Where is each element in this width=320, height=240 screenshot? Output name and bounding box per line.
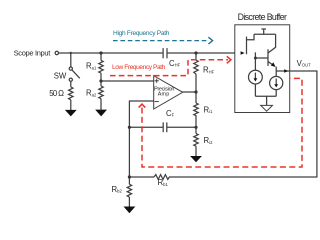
wire Q2 emitter to output node	[275, 67, 277, 71]
wire CF left	[129, 126, 163, 128]
junction Ri1/Ri2/CF	[194, 126, 197, 129]
resistor Rb1	[154, 175, 169, 180]
low frequency path dashed line input to buffer	[110, 60, 228, 76]
wire switch branch	[70, 54, 72, 68]
svg-text:Low Frequency Path: Low Frequency Path	[112, 64, 166, 71]
current source I1 arrowhead	[254, 78, 258, 81]
current source I1	[249, 70, 263, 84]
capacitor CF plates	[162, 122, 164, 132]
wire buffer ground bus	[255, 95, 276, 97]
current source I1 arrow shaft	[254, 73, 256, 79]
svg-text:Scope Input: Scope Input	[14, 49, 52, 58]
wire Q2 base lead	[255, 57, 268, 59]
resistor Ra1	[99, 60, 103, 73]
ground under Ra2	[95, 110, 107, 117]
buffer ground symbol (open)	[261, 105, 273, 111]
wire CF right	[167, 126, 196, 128]
switch SW blade	[72, 70, 80, 78]
transistor Q1 gate bar	[246, 37, 248, 55]
output signal arrowhead to Vout	[284, 69, 288, 73]
ground under Rb2	[124, 207, 136, 214]
transistor Q2 emitter	[268, 62, 275, 67]
junction input/switch	[70, 52, 72, 54]
high frequency path dashed arrow	[113, 40, 208, 42]
switch SW top contact	[69, 67, 72, 70]
svg-text:High Frequency Path: High Frequency Path	[113, 30, 170, 37]
switch SW bottom contact	[69, 78, 72, 81]
wire I2 to ground bus	[275, 90, 277, 97]
wire Rb2 to ground	[128, 197, 130, 207]
supply stub in buffer	[261, 28, 266, 30]
op-amp U1 Precision Amp	[154, 76, 183, 109]
wire Ra branch upper	[100, 54, 102, 61]
junction Ra1/Ra2 tap	[99, 79, 102, 82]
wire Ra1 to tap node	[100, 73, 102, 81]
wire buffer output to box edge	[276, 70, 290, 72]
resistor RHF	[194, 60, 198, 74]
input signal arrowhead into Q1	[241, 51, 245, 55]
junction Q1 source / Q2 base	[254, 57, 257, 60]
svg-text:SW: SW	[54, 71, 67, 80]
wire Ri1 top	[195, 92, 197, 103]
wire RHF top	[195, 54, 197, 61]
wire switch to 50 ohm resistor	[70, 81, 72, 87]
op-amp + input symbol	[155, 80, 159, 82]
wire Q1 source lead	[254, 53, 257, 58]
current source I2 arrowhead	[274, 84, 278, 87]
low frequency path arrowhead into buffer	[227, 56, 231, 63]
wire Ra2 to ground	[100, 99, 102, 110]
resistor Ra2	[99, 86, 103, 99]
resistor Ri1	[194, 103, 198, 117]
resistor Ri2	[194, 134, 198, 147]
Discrete Buffer box	[235, 25, 290, 113]
svg-text:Amp: Amp	[158, 92, 170, 98]
svg-text:Discrete Buffer: Discrete Buffer	[238, 12, 287, 22]
wire buffer ground stem	[266, 96, 268, 105]
wire Ri2 to ground	[195, 146, 197, 156]
wire op-amp output	[183, 91, 196, 93]
wire buffer top rail	[254, 33, 276, 35]
wire CHF to buffer Q1 gate	[167, 52, 255, 54]
current source I2	[270, 76, 283, 89]
node Scope Input terminal	[55, 51, 58, 54]
wire Ra2 top	[100, 81, 102, 86]
junction CF / feedback riser	[128, 126, 131, 129]
low frequency path arrowhead to summing node	[139, 104, 146, 107]
low frequency path feedback dashed line	[142, 78, 302, 167]
transistor Q2 emitter arrowhead	[271, 62, 276, 67]
wire Rb1 to Vout riser	[169, 71, 317, 177]
junction input/Ra1	[99, 51, 102, 54]
wire Rb2 top	[128, 177, 130, 184]
ground under 50 ohm	[65, 110, 77, 117]
svg-text:50 Ω: 50 Ω	[49, 89, 64, 98]
current source I2 arrow shaft	[275, 79, 277, 85]
wire Q1 source to current source I1	[254, 58, 256, 70]
junction op-amp output / RHF / Ri1	[194, 90, 197, 93]
transistor Q2 collector	[268, 34, 276, 53]
wire RHF to op-amp output node	[195, 74, 197, 92]
resistor Rb2	[127, 184, 131, 197]
junction top wire / RHF	[194, 51, 197, 54]
wire top rail input to CHF	[59, 52, 164, 54]
junction feedback riser / Rb1 / Rb2	[128, 175, 131, 178]
wire 50 ohm to ground	[70, 100, 72, 110]
wire op-amp inverting input	[129, 101, 153, 177]
resistor 50 ohm	[69, 87, 73, 100]
wire output node to current source I2	[275, 71, 277, 76]
wire feedback bottom node to Rb1	[129, 176, 154, 178]
wire Q1 drain lead	[247, 34, 255, 40]
capacitor CHF plates	[162, 48, 164, 58]
transistor Q2 base bar	[267, 49, 269, 66]
ground under Ri2	[190, 156, 202, 162]
op-amp - input symbol	[155, 101, 159, 103]
wire attenuator tap to op-amp + input	[101, 80, 154, 82]
wire I1 to ground bus	[254, 84, 256, 96]
wire Ri2 top	[195, 127, 197, 133]
wire Ri1 to CF node	[195, 117, 197, 127]
